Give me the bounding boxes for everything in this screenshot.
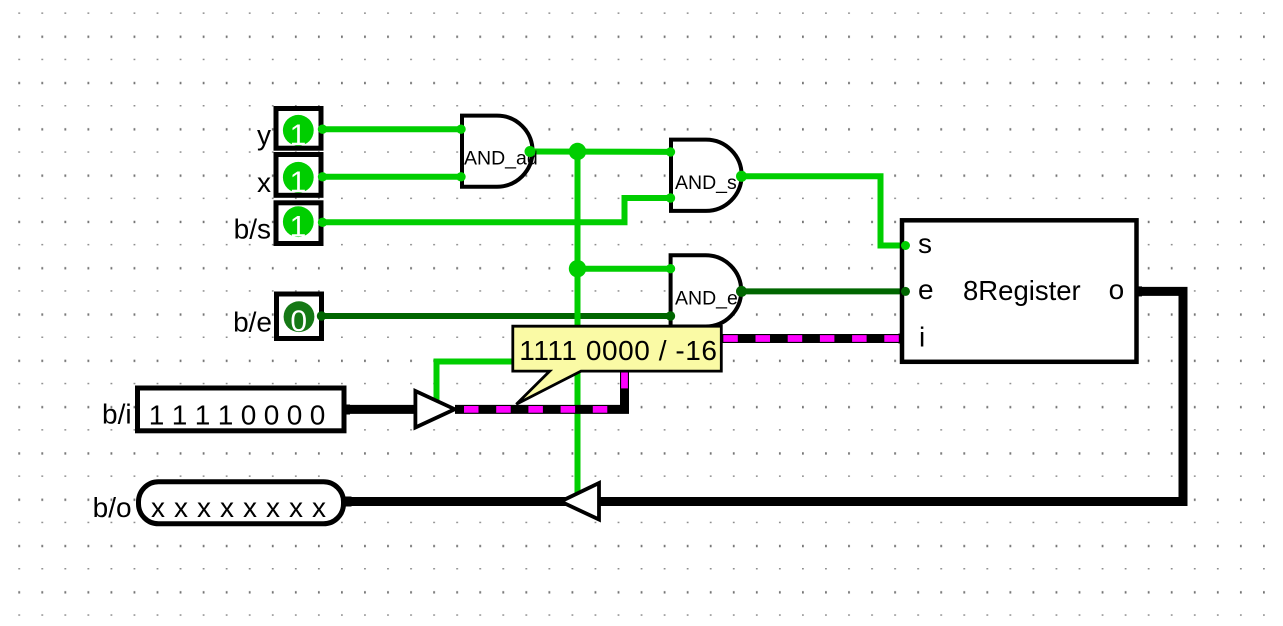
output pin b/o (8-bit, value xxxxxxxx) <box>139 482 344 524</box>
input pin b/e (1-bit, value 0) <box>277 294 322 339</box>
input pin y (1-bit, value 1) <box>276 109 321 153</box>
svg-text:1: 1 <box>172 400 188 431</box>
bus endpoint at b/i pin <box>340 405 350 415</box>
wire y pin to AND_ad upper input (bright green, logic 1) <box>322 126 462 132</box>
wire endpoint dot at AND_e input 1 <box>666 264 675 273</box>
AND gate AND_ad <box>462 116 533 187</box>
svg-text:1: 1 <box>149 400 165 431</box>
magenta value-probe dashes on bus at register i row <box>723 335 901 342</box>
svg-text:0: 0 <box>287 400 303 431</box>
wire b/s pin to AND_s lower input (bright green, logic 1) <box>322 198 671 222</box>
wire b/e pin to AND_e lower input (dark green, logic 0) <box>322 313 671 319</box>
svg-text:b/i: b/i <box>102 398 132 429</box>
value digits of b/o: x x x x x x x x <box>151 492 326 523</box>
wire endpoint dot at register pin e <box>901 287 910 296</box>
wire AND_ad output to AND_s upper input (bright green) <box>530 149 671 155</box>
bus wire b/i pin stub to buffer B1 input (8-bit, black) <box>346 405 417 414</box>
wire endpoint dot at x pin output <box>318 172 327 181</box>
svg-text:e: e <box>918 274 934 305</box>
input pin b/s (1-bit, value 1) <box>276 203 321 244</box>
svg-text:x: x <box>312 492 326 523</box>
svg-text:8Register: 8Register <box>963 275 1081 306</box>
value digits of b/i: 1 1 1 1 0 0 0 0 <box>149 400 326 431</box>
bus endpoint at register pin o <box>1132 286 1142 296</box>
svg-text:x: x <box>197 492 211 523</box>
wire AND_e output to register pin e (dark green, logic 0) <box>740 288 905 294</box>
svg-text:o: o <box>1109 274 1125 305</box>
magenta value-probe dashes on horizontal bus segment <box>464 406 620 413</box>
svg-text:b/e: b/e <box>233 307 272 338</box>
svg-text:0: 0 <box>310 400 326 431</box>
wire branch to b/i buffer enable (bright green) <box>437 362 578 401</box>
wire endpoint dot at AND_ad input 2 <box>456 172 465 181</box>
svg-text:b/s: b/s <box>234 213 271 244</box>
svg-text:1: 1 <box>218 400 234 431</box>
wire endpoint dot at AND_s output <box>736 171 747 182</box>
controlled buffer B1 on b/i bus (points right) <box>415 391 454 428</box>
controlled buffer B2 on b/o bus (points left) <box>561 483 599 520</box>
wire endpoint dot at b/s pin output <box>318 218 327 227</box>
svg-text:1: 1 <box>290 210 307 243</box>
bus wire register pin o loop to buffer B2 and b/o pin (8-bit, black) <box>346 291 1183 501</box>
wire endpoint dot at AND_s input 1 <box>666 147 675 156</box>
input pin b/i (8-bit, value 1111 0000) <box>138 388 345 431</box>
wire endpoint dot at AND_ad input 1 <box>456 125 465 134</box>
wire endpoint dot at register pin s <box>901 241 910 250</box>
wire endpoint dot at AND_e input 2 <box>666 311 675 320</box>
svg-text:x: x <box>289 492 303 523</box>
input pin x (1-bit, value 1) <box>276 155 321 200</box>
svg-text:1: 1 <box>195 400 211 431</box>
svg-text:b/o: b/o <box>93 492 132 523</box>
svg-text:x: x <box>220 492 234 523</box>
svg-text:y: y <box>257 119 271 150</box>
junction node at AND_ad output column, top <box>569 143 586 160</box>
wire AND_s output to register pin s (bright green) <box>741 176 905 245</box>
wire endpoint dot at y pin output <box>318 125 327 134</box>
bus endpoint at register pin i <box>899 334 909 344</box>
svg-text:s: s <box>918 228 932 259</box>
AND gate AND_s <box>671 140 742 211</box>
wire endpoint dot at AND_ad output <box>525 146 536 157</box>
wire endpoint dot at AND_s input 2 <box>666 193 675 202</box>
wire x pin to AND_ad lower input (bright green, logic 1) <box>322 174 462 180</box>
AND gate AND_e <box>671 255 742 326</box>
svg-text:x: x <box>257 167 271 198</box>
bus endpoint at b/o pin <box>342 497 352 507</box>
tooltip balloon showing bus value 1111 0000 / -16 <box>513 326 722 404</box>
svg-text:1: 1 <box>290 166 307 199</box>
svg-text:AND_s: AND_s <box>675 172 737 194</box>
magenta value-probe dash on vertical bus segment <box>621 372 628 389</box>
wire endpoint dot at b/e pin output <box>317 311 326 320</box>
svg-text:x: x <box>243 492 257 523</box>
svg-text:AND_e: AND_e <box>675 288 738 310</box>
bus wire buffer B1 output to register pin i (8-bit, black; runs behind tooltip) <box>455 339 905 410</box>
wire endpoint dot at AND_e output <box>736 286 747 297</box>
svg-text:0: 0 <box>241 400 257 431</box>
svg-text:x: x <box>266 492 280 523</box>
junction node at AND_e branch <box>569 260 586 277</box>
svg-text:1: 1 <box>290 119 307 152</box>
svg-text:1111 0000 / -16: 1111 0000 / -16 <box>519 335 717 366</box>
svg-text:0: 0 <box>264 400 280 431</box>
wire branch to AND_e upper input (bright green) <box>578 266 672 272</box>
wire vertical net from AND_ad output down to b/o buffer enable <box>575 152 581 495</box>
svg-text:0: 0 <box>290 305 307 338</box>
register U1 8Register body <box>902 220 1137 361</box>
svg-text:x: x <box>174 492 188 523</box>
svg-text:i: i <box>919 321 925 352</box>
svg-text:x: x <box>151 492 165 523</box>
